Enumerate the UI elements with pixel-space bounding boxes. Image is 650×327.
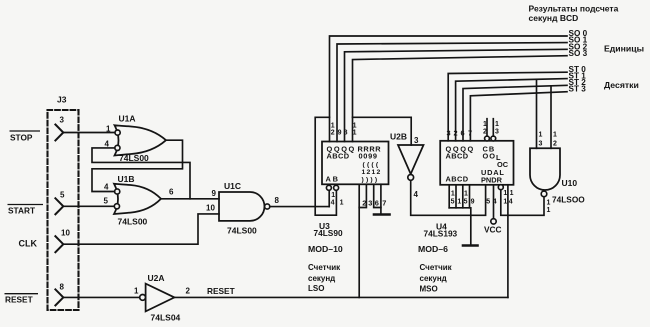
wire U1B output to U1C pin 9: [161, 198, 219, 200]
svg-text:1: 1: [510, 190, 514, 197]
svg-text:A B: A B: [326, 175, 338, 184]
svg-text:ABCD: ABCD: [446, 152, 469, 161]
svg-text:74LS00: 74LS00: [227, 225, 257, 235]
svg-text:74LS00: 74LS00: [118, 216, 148, 226]
gate U1A (negative-OR NAND 74LS00): [115, 125, 167, 155]
svg-text:MSO: MSO: [420, 285, 438, 294]
U4 load pin 11 bubble: [498, 185, 503, 190]
svg-text:3: 3: [60, 116, 65, 125]
wire U3 pin 2 to RESET net: [358, 184, 360, 297]
wire SO3 from U3 pin 11: [353, 56, 568, 142]
svg-text:1: 1: [340, 199, 344, 206]
VCC symbol circle: [491, 219, 496, 224]
svg-text:1: 1: [539, 132, 543, 139]
wire U3 pin 7 to ground: [380, 184, 382, 213]
svg-text:J3: J3: [57, 95, 67, 105]
svg-text:3: 3: [414, 136, 419, 145]
svg-text:)))): )))): [362, 176, 380, 183]
svg-text:8: 8: [275, 196, 280, 205]
wire RESET pin to U2A input: [63, 296, 139, 298]
svg-text:74LS00: 74LS00: [119, 153, 149, 163]
svg-text:OO: OO: [483, 152, 497, 161]
svg-text:4: 4: [414, 190, 419, 199]
svg-text:6: 6: [461, 129, 465, 138]
svg-text:1212: 1212: [362, 169, 382, 176]
svg-text:74LS193: 74LS193: [424, 229, 458, 239]
svg-text:((((: ((((: [363, 162, 381, 169]
node START input pin 5 chevron: [55, 198, 63, 214]
svg-text:Счетчик: Счетчик: [420, 263, 453, 272]
svg-text:2: 2: [454, 129, 458, 138]
wire SO2 from U3 pin 8: [345, 49, 568, 141]
svg-text:секунд: секунд: [420, 274, 447, 283]
svg-text:1: 1: [503, 198, 507, 205]
wire CLK to U1C pin 10: [63, 214, 219, 244]
svg-text:10: 10: [61, 229, 70, 238]
gate U1C (NAND 74LS00): [219, 192, 270, 221]
svg-text:1: 1: [134, 287, 139, 296]
svg-text:START: START: [8, 205, 35, 215]
wire U10 input pin 13 from ST1: [536, 79, 538, 148]
wire U3 pin 3: [359, 184, 366, 207]
gate U1B (negative-OR NAND 74LS00): [114, 184, 161, 214]
svg-text:1: 1: [353, 129, 357, 136]
svg-text:9: 9: [212, 189, 217, 198]
svg-text:74LS90: 74LS90: [314, 228, 343, 238]
svg-text:74LS04: 74LS04: [151, 313, 181, 323]
svg-text:1: 1: [464, 190, 468, 197]
svg-text:RESET: RESET: [5, 295, 33, 305]
wire U2B input from SO3 riser: [353, 117, 412, 145]
svg-text:2: 2: [483, 129, 487, 136]
svg-text:U1A: U1A: [119, 114, 136, 124]
svg-text:1: 1: [483, 121, 487, 128]
svg-text:MOD–6: MOD–6: [418, 244, 448, 254]
svg-text:4: 4: [104, 183, 109, 192]
wire STOP to U1A pin 1: [63, 132, 115, 134]
svg-text:MOD–10: MOD–10: [308, 244, 343, 254]
wire ST3 from U4 pin 7: [470, 92, 567, 141]
svg-text:ABCD: ABCD: [446, 175, 469, 184]
ground bar for U4 data inputs: [463, 244, 478, 247]
svg-text:секунд: секунд: [308, 274, 335, 283]
counter U4 74LS193 box: [440, 141, 513, 185]
wire U4 pin 11 to U10 output: [501, 190, 544, 216]
svg-text:8: 8: [344, 129, 348, 136]
svg-text:4: 4: [493, 198, 497, 205]
svg-text:6: 6: [169, 188, 174, 197]
wire ST0 from U4 pin 3: [448, 72, 567, 141]
wire ST1 from U4 pin 2: [456, 79, 567, 141]
svg-text:2: 2: [553, 141, 557, 148]
svg-text:LSO: LSO: [308, 284, 324, 293]
svg-text:U2B: U2B: [390, 131, 407, 141]
svg-text:CLK: CLK: [19, 239, 38, 249]
svg-text:U1B: U1B: [118, 174, 135, 184]
svg-text:ST 3: ST 3: [569, 85, 587, 94]
svg-text:1: 1: [457, 198, 461, 205]
svg-text:2: 2: [362, 198, 366, 207]
svg-text:3: 3: [368, 198, 372, 207]
svg-text:9: 9: [338, 129, 342, 136]
svg-text:4: 4: [331, 199, 335, 206]
svg-text:SO 3: SO 3: [569, 49, 588, 58]
svg-text:ABCD: ABCD: [327, 152, 350, 161]
svg-text:3: 3: [495, 129, 499, 136]
svg-text:PNDR: PNDR: [481, 176, 503, 185]
wire SO1 from U3 pin 9: [337, 43, 567, 142]
wire U3 pin 6: [374, 184, 381, 207]
U3 clock input bubbles pins 14 and 1: [326, 185, 331, 190]
svg-text:0099: 0099: [359, 152, 378, 161]
svg-text:1: 1: [547, 207, 551, 214]
node STOP input pin 3 chevron: [55, 125, 63, 141]
svg-text:6: 6: [375, 198, 379, 207]
svg-text:RESET: RESET: [207, 286, 235, 296]
gate U10 (NAND 74LS00, drawn vertically): [530, 148, 560, 196]
svg-text:5: 5: [464, 198, 468, 205]
wire U3 pin 14 stub: [328, 190, 330, 206]
svg-text:U2A: U2A: [148, 273, 165, 283]
U4 borrow output pin 13 stub with bubble: [491, 136, 496, 141]
svg-text:3: 3: [539, 141, 543, 148]
svg-text:2: 2: [186, 287, 191, 296]
svg-text:4: 4: [105, 140, 110, 149]
wire SO0 from U3 pin 12: [330, 36, 568, 142]
svg-text:1: 1: [547, 200, 551, 207]
svg-text:2: 2: [331, 129, 335, 136]
svg-text:7: 7: [382, 198, 386, 207]
svg-text:9: 9: [471, 198, 475, 205]
wire U2B output to U4 pin 5 (UP): [411, 180, 486, 215]
inverter U2A (74LS04): [140, 284, 175, 312]
svg-text:5: 5: [60, 191, 65, 200]
svg-text:1: 1: [495, 121, 499, 128]
svg-text:7: 7: [468, 129, 472, 138]
svg-text:Счетчик: Счетчик: [308, 263, 341, 272]
wire U1B output feedback to U1A pin 4: [92, 148, 190, 199]
svg-text:1: 1: [331, 192, 335, 199]
svg-text:5: 5: [451, 198, 455, 205]
svg-text:1: 1: [553, 132, 557, 139]
svg-text:3: 3: [447, 129, 451, 138]
wire RESET net from U2A output to U4 pin 14: [174, 296, 508, 298]
wire U1A output feedback to U1B pin 4: [92, 140, 183, 191]
inverter U2B (74LS04): [398, 145, 424, 180]
wires U4 data pins 15,1,10,9 to ground: [449, 185, 469, 208]
wire U4 pin 14 (CLR) to RESET net: [507, 185, 509, 298]
counter U3 74LS90 box: [322, 142, 389, 185]
svg-text:секунд BCD: секунд BCD: [529, 13, 579, 23]
U4 carry output pin 12 stub with bubble: [485, 136, 490, 141]
svg-text:Десятки: Десятки: [604, 80, 639, 90]
svg-text:10: 10: [206, 204, 215, 213]
svg-text:5: 5: [104, 197, 109, 206]
node CLK input pin 10 chevron: [55, 236, 63, 252]
svg-text:5: 5: [486, 198, 490, 205]
wire U4 pin 4 (DOWN) to VCC: [493, 185, 495, 219]
svg-text:STOP: STOP: [10, 132, 33, 142]
svg-text:U10: U10: [562, 178, 578, 188]
svg-text:74LSOO: 74LSOO: [552, 195, 585, 205]
wire ST2 from U4 pin 6: [463, 85, 567, 141]
svg-text:Единицы: Единицы: [604, 43, 644, 53]
ground bar for U3 R9 pins: [374, 213, 390, 216]
wire START to U1B pin 5: [63, 205, 114, 207]
wire U10 input pin 12 from ST2: [550, 86, 552, 148]
svg-text:4: 4: [509, 198, 513, 205]
svg-text:1: 1: [106, 125, 111, 134]
svg-text:U1C: U1C: [224, 181, 241, 191]
svg-text:8: 8: [60, 283, 65, 292]
svg-text:1: 1: [503, 190, 507, 197]
wire U1C output to U3 clock A pin 14: [270, 206, 329, 208]
svg-text:1: 1: [451, 190, 455, 197]
node RESET input pin 8 chevron: [55, 289, 63, 305]
svg-text:VCC: VCC: [484, 224, 502, 234]
wire U3 pin 1 feedback from QA (SO0): [315, 117, 336, 215]
connector J3 dashed box: [48, 110, 79, 310]
